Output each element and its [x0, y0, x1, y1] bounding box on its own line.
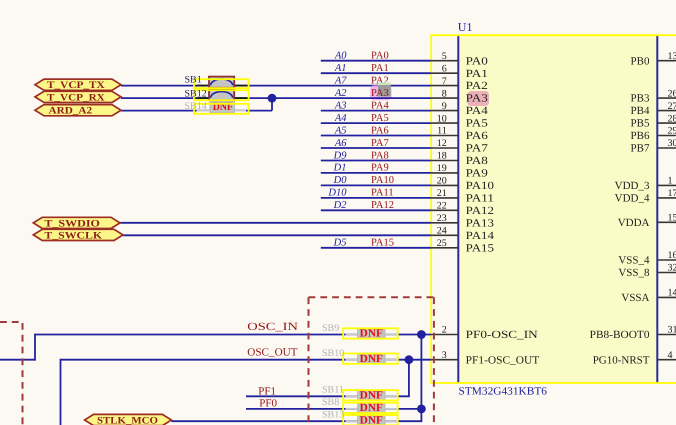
U1 internal pin name PA7	[466, 143, 489, 155]
svg-text:T_VCP_RX: T_VCP_RX	[47, 92, 106, 103]
svg-text:6: 6	[442, 63, 447, 74]
svg-text:PA1: PA1	[371, 63, 389, 74]
U1 internal pin name PA4	[466, 105, 489, 117]
svg-text:SB8: SB8	[322, 397, 339, 408]
port T_VCP_RX	[35, 91, 121, 103]
net label A0	[334, 51, 347, 62]
U1 pin 2 (PF0-OSC_IN)	[431, 325, 458, 336]
U1 internal pin name PF0-OSC_IN	[466, 329, 538, 341]
U1 pin 21 (PA11)	[431, 188, 458, 199]
svg-text:VDD_4: VDD_4	[615, 193, 650, 205]
svg-text:PF1-OSC_OUT: PF1-OSC_OUT	[466, 354, 540, 366]
svg-text:D0: D0	[333, 175, 348, 186]
junction OSC_OUT	[405, 355, 414, 364]
svg-text:SB10: SB10	[322, 348, 344, 359]
svg-text:PA5: PA5	[466, 118, 489, 130]
dashed boundary box bottom-left	[0, 322, 23, 425]
wire PF0 row	[246, 408, 421, 410]
wire net row pin 25	[321, 247, 431, 249]
dashed boundary box around oscillator section	[309, 297, 434, 425]
net label PA2	[371, 75, 389, 86]
U1 pin 16 (VSS_4) right side	[657, 250, 676, 261]
svg-text:A5: A5	[334, 125, 347, 136]
net label A3	[334, 100, 347, 111]
svg-text:PA6: PA6	[371, 125, 389, 136]
wire net row pin 21	[321, 197, 431, 199]
svg-text:STLK_MCO: STLK_MCO	[97, 416, 158, 425]
svg-text:PA9: PA9	[371, 163, 389, 174]
svg-text:PA8: PA8	[371, 150, 389, 161]
solder bridge SB12 (fitted)	[196, 89, 247, 100]
solder bridge SB10 (DNF, not fitted)	[358, 353, 385, 365]
U1 pin 29 (PB6) right side	[657, 126, 676, 137]
U1 pin 25 (PA15)	[431, 238, 458, 249]
svg-text:OSC_OUT: OSC_OUT	[247, 347, 297, 359]
yellow highlight box around solder bridge	[194, 104, 249, 114]
U1 pin 14 (VSSA) right side	[657, 288, 676, 299]
U1 pin 19 (PA9)	[431, 163, 458, 174]
net label PF0	[259, 397, 277, 409]
svg-text:31: 31	[668, 325, 676, 336]
svg-text:A1: A1	[334, 63, 347, 74]
port ARD_A2	[35, 105, 121, 117]
U1 value label STM32G431KBT6	[459, 386, 548, 398]
svg-text:2: 2	[442, 325, 447, 336]
grayed wire under DNF solder bridge	[346, 420, 398, 422]
svg-text:PB6: PB6	[631, 130, 650, 142]
svg-text:PA9: PA9	[466, 168, 489, 180]
label SB9 (grayed)	[322, 323, 339, 334]
svg-text:30: 30	[668, 138, 676, 149]
U1 internal pin name PF1-OSC_OUT	[466, 354, 540, 366]
svg-text:16: 16	[668, 250, 676, 261]
U1 pin 18 (PA8)	[431, 151, 458, 162]
net label PA12	[371, 200, 394, 211]
svg-text:D1: D1	[333, 163, 347, 174]
svg-text:PA4: PA4	[371, 100, 389, 111]
net label D10	[327, 188, 347, 199]
U1 pin 11 (PA6)	[431, 126, 458, 137]
svg-text:PA6: PA6	[466, 130, 489, 142]
svg-text:A7: A7	[334, 75, 347, 86]
U1 component bounding outline (yellow)	[431, 35, 676, 383]
U1 pin 3 (PF1-OSC_OUT)	[431, 350, 458, 361]
svg-text:11: 11	[437, 126, 447, 137]
svg-text:PA2: PA2	[466, 80, 488, 92]
svg-text:PB8-BOOT0: PB8-BOOT0	[590, 329, 650, 341]
U1 pin 4 (PG10-NRST) right side	[657, 350, 676, 361]
U1 internal pin name VSS_8	[618, 267, 650, 279]
svg-text:25: 25	[437, 238, 447, 249]
port T_VCP_TX	[35, 79, 121, 91]
yellow highlight box around solder bridge	[343, 415, 398, 425]
svg-text:VDD_3: VDD_3	[615, 180, 650, 192]
U1 internal pin name PA6	[466, 130, 489, 142]
svg-text:PB7: PB7	[631, 143, 650, 155]
highlighted net label PA3	[370, 83, 392, 101]
U1 pin 6 (PA1)	[431, 63, 458, 74]
svg-text:PA4: PA4	[466, 105, 489, 117]
net label PA5	[371, 113, 389, 124]
label SB14 (grayed)	[185, 101, 207, 112]
wire net row pin 19	[321, 172, 431, 174]
svg-text:VSSA: VSSA	[621, 292, 649, 304]
svg-text:7: 7	[442, 76, 447, 87]
svg-text:13: 13	[668, 51, 676, 62]
U1 internal pin name VDD_4	[615, 193, 650, 205]
yellow highlight box around solder bridge	[343, 354, 398, 364]
svg-text:PB0: PB0	[631, 55, 650, 67]
U1 pin 26 (PB3) right side	[657, 88, 676, 99]
svg-text:23: 23	[437, 213, 447, 224]
U1 internal pin name PG10-NRST	[593, 354, 650, 366]
svg-text:PA14: PA14	[466, 230, 495, 242]
U1 internal pin name PB0	[631, 55, 650, 67]
wire T_VCP_RX to PA3 (through SB12)	[121, 97, 431, 99]
U1 pin 32 (VSS_8) right side	[657, 263, 676, 274]
wire OSC_OUT down to PF1 row	[408, 360, 410, 397]
U1 internal pin name PA15	[466, 242, 495, 254]
svg-text:D2: D2	[333, 200, 348, 211]
solder bridge SB14 (DNF, not fitted)	[210, 101, 235, 113]
svg-text:28: 28	[668, 113, 676, 124]
svg-text:PF1: PF1	[258, 385, 276, 397]
svg-text:SB14: SB14	[185, 101, 207, 112]
port STLK_MCO	[85, 414, 172, 425]
svg-text:SB11: SB11	[322, 385, 344, 396]
solder bridge SB13 (DNF, not fitted)	[358, 414, 385, 425]
U1 pin 20 (PA10)	[431, 176, 458, 187]
U1 pin 9 (PA4)	[431, 101, 458, 112]
svg-text:22: 22	[437, 201, 447, 212]
wire net row pin 9	[321, 110, 431, 112]
svg-text:U1: U1	[458, 20, 473, 34]
svg-text:A2: A2	[334, 88, 347, 99]
wire net row pin 22	[321, 209, 431, 211]
U1 pin 17 (VDD_4) right side	[657, 188, 676, 199]
svg-text:PG10-NRST: PG10-NRST	[593, 354, 650, 366]
U1 internal pin name PA14	[466, 230, 495, 242]
svg-text:D5: D5	[333, 238, 347, 249]
svg-text:SB1: SB1	[185, 75, 202, 86]
svg-text:A3: A3	[334, 100, 347, 111]
U1 reference designator	[458, 20, 473, 34]
svg-text:DNF: DNF	[360, 414, 383, 425]
yellow highlight box around solder bridge	[343, 328, 398, 338]
label SB10 (grayed)	[322, 348, 344, 359]
svg-text:VSS_8: VSS_8	[618, 267, 650, 279]
port T_SWDIO	[33, 217, 120, 229]
net label D5	[333, 238, 347, 249]
label SB11 (grayed)	[322, 385, 344, 396]
wire net row pin 18	[321, 160, 431, 162]
label SB8 (grayed)	[322, 397, 339, 408]
net label A6	[334, 138, 347, 149]
U1 internal pin name VSSA	[621, 292, 649, 304]
U1 internal pin name PA12	[466, 205, 494, 217]
U1 internal pin name PA10	[466, 180, 495, 192]
U1 pin 31 (PB8-BOOT0) right side	[657, 325, 676, 336]
net label OSC_IN	[247, 321, 298, 333]
U1 pin 7 (PA2)	[431, 76, 458, 87]
svg-text:PA10: PA10	[466, 180, 495, 192]
U1 internal pin name PA8	[466, 155, 489, 167]
wire net row pin 11	[321, 135, 431, 137]
net label D9	[333, 150, 348, 161]
wire net row pin 20	[321, 184, 431, 186]
svg-text:SB13: SB13	[322, 410, 344, 421]
svg-text:5: 5	[442, 51, 447, 62]
svg-text:VSS_4: VSS_4	[618, 255, 650, 267]
label SB12	[185, 89, 207, 100]
U1 pin 27 (PB4) right side	[657, 101, 676, 112]
svg-text:STM32G431KBT6: STM32G431KBT6	[459, 386, 548, 398]
wire PF1 row	[246, 395, 410, 397]
svg-text:D9: D9	[333, 150, 348, 161]
wire T_SWDIO to pin 23	[120, 222, 431, 224]
net label A1	[334, 63, 347, 74]
svg-text:PA7: PA7	[371, 138, 389, 149]
net label A4	[334, 113, 347, 124]
grayed wire under DNF solder bridge	[346, 359, 398, 361]
svg-text:PB5: PB5	[631, 118, 650, 130]
yellow highlight box around solder bridge	[343, 390, 398, 400]
U1 internal pin name PA0	[466, 55, 489, 67]
svg-text:PA0: PA0	[371, 51, 389, 62]
svg-text:OSC_IN: OSC_IN	[247, 321, 298, 333]
svg-text:18: 18	[437, 151, 447, 162]
svg-text:PA3: PA3	[466, 93, 489, 105]
wire STLK_MCO row through SB13	[171, 409, 421, 422]
U1 internal pin name PA13	[466, 217, 495, 229]
U1 internal pin name PB5	[631, 118, 650, 130]
U1 internal pin name PB3	[631, 93, 650, 105]
net label PA7	[371, 138, 389, 149]
U1 pin 22 (PA12)	[431, 201, 458, 212]
svg-text:PF0: PF0	[259, 397, 277, 409]
solder bridge SB11 (DNF, not fitted)	[358, 389, 385, 401]
U1 pin 23 (PA13)	[431, 213, 458, 224]
U1 internal pin name PA1	[466, 68, 488, 80]
svg-text:SB9: SB9	[322, 323, 339, 334]
U1 pin 28 (PB5) right side	[657, 113, 676, 124]
svg-text:15: 15	[668, 213, 676, 224]
svg-text:PA15: PA15	[466, 242, 495, 254]
svg-text:SB12: SB12	[185, 89, 207, 100]
label SB1	[185, 75, 202, 86]
svg-text:PA13: PA13	[466, 217, 495, 229]
svg-text:1: 1	[668, 176, 673, 187]
wire T_SWCLK to pin 24	[123, 234, 431, 236]
svg-text:D10: D10	[327, 188, 347, 199]
port T_SWCLK	[33, 229, 123, 241]
svg-text:PA0: PA0	[466, 55, 489, 67]
svg-text:19: 19	[437, 163, 447, 174]
U1 internal pin name VDDA	[618, 217, 650, 229]
svg-text:PA8: PA8	[466, 155, 489, 167]
svg-text:27: 27	[668, 101, 676, 112]
svg-text:T_SWDIO: T_SWDIO	[44, 218, 100, 229]
svg-text:PA15: PA15	[371, 238, 394, 249]
U1 pin 24 (PA14)	[431, 226, 458, 237]
wire vertical pin2 net down to PF0 row	[420, 335, 422, 409]
svg-text:T_VCP_TX: T_VCP_TX	[47, 80, 106, 91]
U1 internal pin name PA3	[466, 93, 489, 105]
U1 pin 5 (PA0)	[431, 51, 458, 62]
grayed wire under DNF solder bridge	[346, 334, 398, 336]
net label PA9	[371, 163, 389, 174]
svg-text:32: 32	[668, 263, 676, 274]
svg-text:PA5: PA5	[371, 113, 389, 124]
svg-text:A0: A0	[334, 51, 347, 62]
junction PF0	[417, 405, 426, 414]
U1 pin 15 (VDDA) right side	[657, 213, 676, 224]
op-amp U1 body: STM32G431KBT6 microcontroller	[457, 35, 658, 382]
svg-text:10: 10	[437, 113, 447, 124]
wire OSC_OUT row to pin 3	[61, 359, 432, 425]
net label PA10	[371, 175, 394, 186]
svg-text:A6: A6	[334, 138, 347, 149]
svg-text:21: 21	[437, 188, 447, 199]
yellow highlight box around solder bridge	[194, 79, 249, 88]
yellow highlight box around solder bridge	[194, 90, 249, 100]
solder bridge SB8 (DNF, not fitted)	[358, 402, 385, 414]
net label PA4	[371, 100, 389, 111]
solder bridge SB1 (fitted)	[196, 77, 247, 88]
net label A7	[334, 75, 347, 86]
net label PA6	[371, 125, 389, 136]
svg-text:9: 9	[442, 101, 447, 112]
svg-text:12: 12	[437, 138, 447, 149]
svg-text:24: 24	[437, 226, 447, 237]
net label D1	[333, 163, 347, 174]
net label A5	[334, 125, 347, 136]
U1 internal pin name PA2	[466, 80, 488, 92]
wire ARD_A2 to SB14 and up to PA3 net	[121, 98, 272, 111]
svg-text:PB3: PB3	[631, 93, 650, 105]
net label D0	[333, 175, 348, 186]
svg-text:PA3: PA3	[371, 88, 389, 99]
svg-text:PA11: PA11	[466, 193, 494, 205]
U1 pin 1 (VDD_3) right side	[657, 176, 676, 187]
net label PA1	[371, 63, 389, 74]
grayed wire under SB14	[197, 110, 247, 112]
U1 pin 30 (PB7) right side	[657, 138, 676, 149]
svg-text:PF0-OSC_IN: PF0-OSC_IN	[466, 329, 538, 341]
junction on PA3 net	[268, 94, 277, 103]
U1 pin 8 (PA3)	[431, 88, 458, 99]
svg-text:3: 3	[442, 350, 447, 361]
highlighted internal pin name PA3	[467, 91, 489, 106]
grayed wire under DNF solder bridge	[346, 395, 398, 397]
svg-text:14: 14	[668, 288, 676, 299]
junction OSC_IN at pin2	[417, 330, 426, 339]
label SB13 (grayed)	[322, 410, 344, 421]
svg-text:ARD_A2: ARD_A2	[49, 106, 93, 117]
grayed wire under DNF solder bridge	[346, 408, 398, 410]
U1 internal pin name PB7	[631, 143, 650, 155]
U1 internal pin name PB6	[631, 130, 650, 142]
svg-text:PA1: PA1	[466, 68, 488, 80]
svg-text:T_SWCLK: T_SWCLK	[44, 230, 102, 241]
wire net row pin 5	[321, 60, 431, 62]
svg-text:PA10: PA10	[371, 175, 394, 186]
svg-text:PA7: PA7	[466, 143, 489, 155]
U1 internal pin name VDD_3	[615, 180, 650, 192]
U1 internal pin name PA11	[466, 193, 494, 205]
wire net row pin 10	[321, 122, 431, 124]
svg-text:A4: A4	[334, 113, 347, 124]
svg-text:29: 29	[668, 126, 676, 137]
net label PF1	[258, 385, 276, 397]
net label PA0	[371, 51, 389, 62]
wire net row pin 12	[321, 147, 431, 149]
U1 internal pin name PA5	[466, 118, 489, 130]
yellow highlight box around solder bridge	[343, 403, 398, 413]
net label OSC_OUT	[247, 347, 297, 359]
wire T_VCP_TX to PA2 (through SB1)	[121, 85, 431, 87]
svg-text:17: 17	[668, 188, 676, 199]
U1 pin 12 (PA7)	[431, 138, 458, 149]
net label PA8	[371, 150, 389, 161]
U1 pin 13 (PB0) right side	[657, 51, 676, 62]
svg-text:20: 20	[437, 176, 447, 187]
net label PA11	[371, 188, 394, 199]
svg-text:8: 8	[442, 88, 447, 99]
U1 internal pin name PB4	[631, 105, 650, 117]
svg-text:VDDA: VDDA	[618, 217, 650, 229]
wire net row pin 6	[321, 72, 431, 74]
svg-text:26: 26	[668, 88, 676, 99]
U1 pin 10 (PA5)	[431, 113, 458, 124]
wire OSC_IN from left edge to pin 2	[0, 334, 431, 361]
svg-text:PB4: PB4	[631, 105, 650, 117]
svg-text:PA12: PA12	[371, 200, 394, 211]
svg-text:4: 4	[668, 350, 673, 361]
U1 internal pin name PB8-BOOT0	[590, 329, 650, 341]
svg-text:PA12: PA12	[466, 205, 494, 217]
net label A2	[334, 88, 347, 99]
U1 internal pin name VSS_4	[618, 255, 650, 267]
solder bridge SB9 (DNF, not fitted)	[358, 328, 385, 340]
U1 internal pin name PA9	[466, 168, 489, 180]
svg-text:PA11: PA11	[371, 188, 394, 199]
net label PA15	[371, 238, 394, 249]
net label D2	[333, 200, 348, 211]
